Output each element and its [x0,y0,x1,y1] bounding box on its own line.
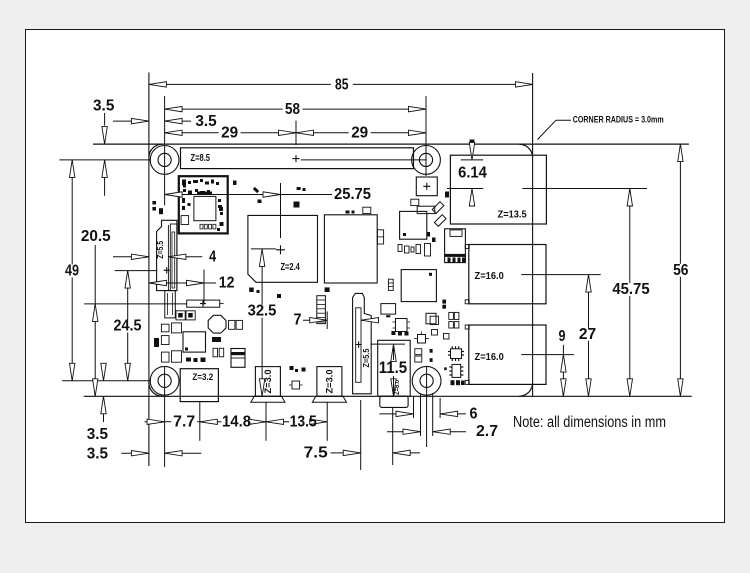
dimension 49 [71,160,73,381]
display connector DSI Z=5.5 [157,220,177,290]
svg-text:11.5: 11.5 [379,358,407,377]
dimension 3.5 top horizontal [113,120,149,122]
mounting hole H1 top-left [150,146,179,175]
transistor near HDMI0 [292,381,300,389]
USB lower centreline [521,354,574,356]
parts below SoC [249,288,254,293]
parts left of USB stacks [442,300,446,304]
dimension 25.75 [165,194,332,196]
svg-text:3.5: 3.5 [195,113,217,130]
ethernet centreline left [447,188,483,190]
svg-text:Z=3.0: Z=3.0 [325,370,335,394]
dimension 20.5 reference line [84,303,187,305]
parts between USB-C and HDMI0 [290,366,294,370]
three pads bottom right [451,380,455,385]
svg-text:6.14: 6.14 [458,164,487,181]
USB upper tab top [465,245,469,249]
svg-text:7.7: 7.7 [173,413,195,430]
HDMI1 centreline upper [326,311,328,329]
transistor mid cluster [418,335,426,344]
HDMI0 centreline ext [265,402,267,441]
USB stack lower [469,325,546,384]
svg-text:9: 9 [559,328,566,345]
svg-text:Note: all dimensions in mm: Note: all dimensions in mm [513,414,666,431]
cap near ethernet edge 2 [432,238,436,243]
part right of wireless module [219,207,223,211]
chip with side pins lower right [452,364,461,377]
hole dia ext left [420,393,422,436]
PoE centre mark [423,183,430,190]
svg-text:27: 27 [579,326,596,343]
svg-text:14.8: 14.8 [222,413,251,430]
svg-text:56: 56 [673,262,689,279]
PoE header [416,177,437,196]
svg-text:12: 12 [219,275,235,292]
HDMI1 centreline ext [326,402,328,441]
USB upper tab bottom [465,300,469,304]
svg-text:Z=8.5: Z=8.5 [191,153,211,164]
pads row below PMIC [186,358,191,362]
svg-text:13.5: 13.5 [290,413,318,430]
USB3 front housing [445,229,466,263]
dimension 12 [149,282,216,284]
electrolytic cap [231,349,245,368]
USB lower tab bottom [465,380,469,384]
svg-text:7: 7 [294,312,302,329]
centreline hole H2 vertical [425,96,427,176]
parts below inductor [212,337,221,342]
audio jack Z=6.0 [378,340,411,396]
svg-text:Z=2.4: Z=2.4 [281,262,301,273]
svg-text:Z=16.0: Z=16.0 [475,352,505,363]
wireless module IC [194,196,216,220]
svg-text:6: 6 [470,405,478,422]
svg-text:58: 58 [285,101,300,118]
SoC centreline vertical [280,183,282,238]
DSI centreline [167,225,169,290]
svg-text:32.5: 32.5 [248,303,277,320]
part near GPIO [233,181,237,186]
dimension 32.5 [251,248,276,250]
mounting hole H4 bottom-right [412,366,441,395]
svg-text:25.75: 25.75 [334,186,371,203]
svg-text:20.5: 20.5 [81,228,111,245]
USB stack upper [469,245,546,304]
striped component below SDRAM [317,296,326,324]
part above ethernet PHY [417,206,435,213]
hole dia ext right [432,393,434,436]
dimension 58 [165,108,426,110]
SDRAM chip [324,215,377,283]
micro-HDMI connector 0 [255,367,280,397]
camera centre mark [355,341,361,347]
svg-text:4: 4 [209,249,216,266]
GPIO header J8 Z=8.5 [181,148,414,169]
QFN with pins lower right [451,349,462,359]
part on top board edge [470,140,475,145]
svg-text:Z=5.5: Z=5.5 [156,240,165,258]
DSI centre mark [164,267,170,273]
dimension 3.5 bottom-left vertical [103,363,105,381]
ethernet PHY chip [401,270,436,302]
wireless module left part [181,216,189,225]
pad dia ext left [413,396,415,418]
dimension 4 [113,256,149,258]
inductor octagon [208,315,226,333]
wireless module [179,176,228,233]
svg-text:24.5: 24.5 [114,318,142,335]
corner radius callout [538,120,572,139]
svg-text:3.5: 3.5 [87,445,109,462]
diagonal parts near ethernet [432,202,444,214]
caps right of inductor [229,320,235,329]
board corner radius arcs [149,144,533,396]
dimension 11.5 [370,343,405,345]
svg-text:2.7: 2.7 [476,423,498,440]
dimension 45.75 [629,189,631,397]
rect with plus below DSI [187,300,220,307]
dimension 29 centre tick [295,121,297,145]
pad dia ext right [439,398,441,418]
micro-HDMI connector 1 [317,367,342,397]
svg-text:29: 29 [351,125,368,142]
centreline hole H1 horizontal [59,159,151,161]
part right of PoE header [445,192,449,198]
svg-text:85: 85 [335,76,349,93]
dimension 24.5 reference tick [115,270,158,272]
USB-C centreline ext [199,402,201,441]
board outline edge lines [93,143,689,145]
USB upper centreline [521,274,600,276]
centreline hole H4 vertical [426,367,428,447]
chip right of camera [396,319,408,332]
dimension 56 [679,144,681,396]
cap near ethernet edge 1 [427,232,431,237]
wireless module small parts [182,180,186,186]
centreline hole H3 horizontal [62,380,151,382]
dimension 85 top [149,83,533,85]
svg-text:7.5: 7.5 [304,444,328,461]
svg-text:Z=5.5: Z=5.5 [362,348,371,367]
PMIC QFN [183,332,206,352]
USB controller chip [400,211,427,239]
part below SoC right [277,294,281,298]
SoC BCM2711 Z=2.4 [248,215,318,282]
mounting hole H3 bottom-left [150,366,179,395]
wireless module centreline [203,270,205,305]
striped component left of PHY [388,279,393,290]
audio centreline ext [392,407,394,465]
parts above SDRAM [346,211,350,214]
camera connector CSI Z=5.5 [353,293,372,393]
dimension 29 left and right [165,132,426,134]
parts right of camera connector [381,304,396,315]
svg-text:Z=3.2: Z=3.2 [192,372,213,383]
centreline hole H1 vertical [164,96,166,205]
DSI flex tail [165,291,176,318]
mounting hole H2 top-right [412,146,441,175]
ethernet jack [450,155,546,224]
ethernet centreline right [522,188,647,190]
svg-text:CORNER RADIUS = 3.0mm: CORNER RADIUS = 3.0mm [573,115,664,126]
left column small parts [161,324,169,332]
svg-text:49: 49 [65,263,79,280]
centreline holes H1-H2 horizontal right segment [301,159,427,161]
parts above SoC [258,200,262,204]
USB-C power connector Z=3.2 [180,369,218,402]
GPIO centre mark [293,155,300,162]
small part [444,334,450,340]
centreline hole H3 vertical [164,367,166,467]
tantalum cap pair below DSI [176,311,185,320]
svg-text:3.5: 3.5 [93,98,115,115]
svg-text:3.5: 3.5 [87,426,109,443]
camera centreline ext [360,400,362,470]
small parts top-left near SD area [152,201,156,205]
wireless module bottom pads [200,224,203,229]
svg-text:45.75: 45.75 [612,281,650,298]
USB controller pin1 dot [403,233,406,236]
passives row below USB controller [398,245,402,252]
passives right of SDRAM [377,230,383,244]
SoC centre mark [276,245,285,254]
part right of USB controller [411,199,419,205]
svg-text:Z=16.0: Z=16.0 [475,271,505,282]
svg-text:29: 29 [221,125,238,142]
USB lower tab top [465,325,469,329]
svg-text:Z=13.5: Z=13.5 [498,209,527,220]
ethernet PHY pin1 dot [429,273,432,276]
